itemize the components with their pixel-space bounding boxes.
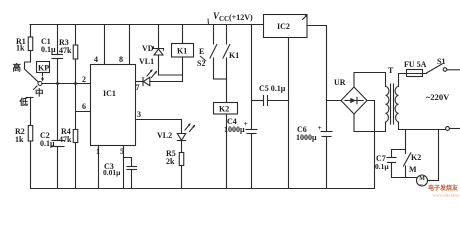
op-amp IC1 <box>91 65 136 146</box>
node C1 junction <box>56 82 59 85</box>
relay coil K1 <box>182 25 184 44</box>
svg-text:VL2: VL2 <box>157 131 172 140</box>
wire pin7 <box>136 81 144 83</box>
capacitor C2 <box>57 84 59 141</box>
svg-text:3: 3 <box>137 110 141 119</box>
svg-text:VD: VD <box>142 44 154 53</box>
capacitor C4 <box>251 25 253 130</box>
wire pin6 net <box>76 111 91 113</box>
svg-text:K1: K1 <box>229 51 239 60</box>
wire pin2 net <box>42 83 91 85</box>
svg-text:S1: S1 <box>437 57 445 66</box>
svg-text:1k: 1k <box>16 44 25 53</box>
svg-text:~: ~ <box>420 182 423 188</box>
wire bridge ac top <box>354 73 386 88</box>
svg-text:FU 5A: FU 5A <box>404 60 427 69</box>
svg-text:K2: K2 <box>411 153 421 162</box>
switch S2 <box>213 25 215 45</box>
resistor R4 <box>73 130 78 143</box>
svg-text:CC: CC <box>219 15 229 23</box>
svg-text:0.1μ: 0.1μ <box>41 45 56 54</box>
svg-text:2: 2 <box>82 75 86 84</box>
regulator IC2 <box>264 15 308 38</box>
wire bottom ground rail <box>31 188 375 190</box>
label Vcc <box>207 19 210 25</box>
svg-text:1000μ: 1000μ <box>296 133 317 142</box>
svg-text:电子发烧友: 电子发烧友 <box>428 184 459 192</box>
wire motor bottom <box>392 177 418 179</box>
svg-text:6: 6 <box>82 102 86 111</box>
svg-text:K2: K2 <box>219 105 229 114</box>
svg-text:T: T <box>388 66 394 75</box>
fuse FU <box>399 74 405 87</box>
wire motor right branch <box>438 130 440 181</box>
svg-text:E: E <box>199 47 204 56</box>
resistor R1 <box>30 25 32 37</box>
resistor R3 <box>75 25 77 46</box>
wire bridge dc+ <box>327 100 342 102</box>
svg-text:1: 1 <box>96 147 100 156</box>
svg-text:中: 中 <box>35 88 44 98</box>
svg-text:2k: 2k <box>166 157 175 166</box>
svg-text:1k: 1k <box>15 135 24 144</box>
box KP <box>37 62 50 73</box>
selector blade <box>25 69 39 82</box>
wire pin3 net <box>136 119 182 121</box>
svg-text:4: 4 <box>94 55 98 64</box>
LED VL2 <box>181 120 183 134</box>
motor M <box>417 175 428 186</box>
wire IC2 ground <box>288 38 290 189</box>
svg-text:0.01μ: 0.01μ <box>103 168 121 177</box>
svg-text:S2: S2 <box>197 59 205 68</box>
wire bridge ac bottom <box>354 114 386 132</box>
LED VL1 <box>142 78 144 86</box>
svg-text:~220V: ~220V <box>426 92 450 102</box>
svg-text:IC1: IC1 <box>103 89 116 98</box>
svg-text:KP: KP <box>38 64 49 73</box>
capacitor C5 <box>252 100 264 102</box>
diode VD (zener) <box>158 25 160 49</box>
switch K1 contact <box>226 25 228 45</box>
wire pin8 <box>129 25 131 65</box>
capacitor C3 <box>124 158 132 167</box>
svg-text:+: + <box>318 123 322 132</box>
svg-text:0.1μ: 0.1μ <box>40 139 55 148</box>
svg-text:IC2: IC2 <box>277 22 290 31</box>
wire IC2 output <box>307 26 327 132</box>
wire pin1 <box>98 146 100 189</box>
svg-text:高: 高 <box>13 63 22 73</box>
svg-text:7: 7 <box>136 83 140 92</box>
bridge rectifier UR <box>341 87 367 114</box>
switch K2 contact <box>405 130 407 154</box>
switch S1 <box>427 64 443 73</box>
svg-text:0.1μ: 0.1μ <box>375 162 389 171</box>
resistor R2 <box>30 98 32 126</box>
wire pin4 <box>104 25 106 65</box>
svg-text:+: + <box>244 119 248 128</box>
svg-text:C5 0.1μ: C5 0.1μ <box>259 84 286 93</box>
capacitor C6 <box>321 131 332 133</box>
svg-text:低: 低 <box>19 97 29 107</box>
transformer T <box>386 87 389 123</box>
svg-text:47k: 47k <box>59 46 72 55</box>
capacitor C1 <box>57 25 59 55</box>
relay coil K2 <box>214 103 238 115</box>
svg-text:47k: 47k <box>59 135 72 144</box>
svg-text:M: M <box>409 165 417 174</box>
svg-text:www.elecfans.com: www.elecfans.com <box>433 193 460 198</box>
switch contact 低 <box>26 97 33 99</box>
svg-text:(+12V): (+12V) <box>229 13 253 22</box>
wire pin5 <box>123 146 125 189</box>
mains terminal node <box>446 127 450 131</box>
svg-text:1000μ: 1000μ <box>224 125 245 134</box>
watermark <box>428 184 460 198</box>
svg-text:5: 5 <box>120 147 124 156</box>
svg-text:8: 8 <box>119 55 123 64</box>
selector pole node <box>38 82 42 86</box>
wire mains bottom <box>399 122 446 130</box>
wire bridge dc- <box>367 101 375 189</box>
svg-text:UR: UR <box>334 78 346 87</box>
resistor R5 <box>181 141 183 153</box>
capacitor C7 <box>392 150 406 158</box>
svg-text:K1: K1 <box>177 47 187 56</box>
switch contact 中 <box>34 86 38 90</box>
node R3 junction <box>74 82 77 85</box>
svg-text:VL1: VL1 <box>139 57 154 66</box>
wire top +12V rail <box>30 24 264 26</box>
